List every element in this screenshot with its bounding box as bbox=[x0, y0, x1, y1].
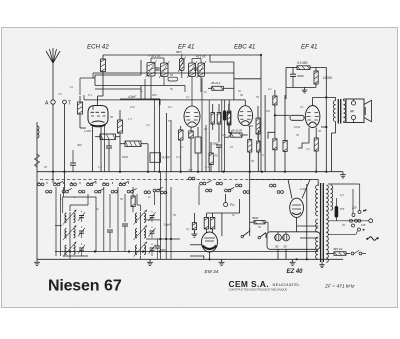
resistor EM34 target bbox=[192, 223, 196, 230]
svg-text:6BJJ: 6BJJ bbox=[176, 50, 182, 54]
wire osc feedback 3 bbox=[95, 88, 141, 90]
speaker terminal bottom bbox=[351, 115, 355, 119]
svg-text:6,3: 6,3 bbox=[340, 193, 344, 197]
svg-text:50: 50 bbox=[110, 115, 114, 119]
wire output anode bbox=[312, 97, 314, 105]
box 50pF bbox=[168, 77, 178, 81]
svg-text:3,4pF: 3,4pF bbox=[164, 223, 171, 227]
wire left col 2 bbox=[166, 113, 168, 172]
svg-text:0,3: 0,3 bbox=[146, 123, 150, 127]
svg-text:50: 50 bbox=[275, 245, 279, 249]
wire mains long bbox=[328, 220, 369, 222]
svg-text:T.P: T.P bbox=[188, 168, 192, 172]
resistor output cathode bbox=[314, 138, 318, 151]
cap osc row3 bbox=[155, 245, 160, 247]
wire EBC41 rail bbox=[260, 79, 262, 172]
IF1 coil secondary bbox=[161, 63, 169, 77]
svg-text:200: 200 bbox=[151, 93, 157, 97]
box EF41 decoupling bbox=[195, 137, 201, 153]
ground bottom 1 bbox=[149, 259, 151, 262]
svg-text:0,2: 0,2 bbox=[268, 87, 272, 91]
wire grid horiz bbox=[80, 77, 95, 79]
cap sw 1 bbox=[107, 229, 113, 231]
svg-text:Niesen: Niesen bbox=[48, 278, 99, 295]
output transformer core bbox=[337, 99, 339, 124]
paper texture bbox=[0, 0, 1, 1]
svg-text:5000: 5000 bbox=[212, 142, 218, 146]
svg-text:220: 220 bbox=[351, 206, 357, 210]
wire HT top bbox=[317, 180, 319, 187]
svg-text:0,1: 0,1 bbox=[186, 95, 190, 99]
svg-text:EM 34: EM 34 bbox=[205, 269, 219, 275]
svg-text:10000: 10000 bbox=[323, 76, 332, 80]
wire mid vertical b bbox=[170, 120, 172, 172]
svg-text:25: 25 bbox=[229, 145, 233, 149]
ground bus right bbox=[342, 172, 344, 175]
wire ECH42 cathode drops bbox=[92, 126, 94, 172]
wire nfb bottom bbox=[286, 86, 316, 88]
coil ant SW bbox=[65, 245, 67, 248]
svg-text:PU: PU bbox=[230, 203, 235, 207]
power transformer core bbox=[320, 183, 322, 262]
volume pot bbox=[256, 118, 260, 134]
wire mid vertical c bbox=[201, 78, 203, 172]
fuse 465 bbox=[334, 252, 346, 256]
bus heater bbox=[55, 251, 318, 253]
tube EM34 bbox=[202, 232, 218, 252]
wire selector drop b bbox=[359, 184, 361, 211]
coil ant LW bbox=[65, 229, 67, 232]
svg-text:1nF: 1nF bbox=[130, 105, 135, 109]
ground nfb bbox=[304, 87, 306, 90]
svg-text:EF 41: EF 41 bbox=[301, 44, 317, 51]
wire EM34 down bbox=[209, 252, 211, 259]
output transformer secondary bbox=[344, 101, 346, 105]
wire mid vertical d bbox=[205, 125, 207, 172]
switch arm 2 bbox=[260, 233, 266, 238]
coil ant MW bbox=[65, 213, 67, 216]
svg-text:50: 50 bbox=[318, 129, 322, 133]
svg-text:0,1: 0,1 bbox=[88, 93, 92, 97]
wire EZ40 right rail bbox=[306, 184, 308, 232]
wire mains low bbox=[328, 233, 356, 235]
svg-text:45+0,05: 45+0,05 bbox=[231, 129, 242, 133]
trimmer osc 2 bbox=[150, 230, 155, 232]
junction dots right bbox=[325, 96, 327, 98]
mains switch 2 bbox=[351, 252, 354, 255]
wire sw to coils bbox=[63, 187, 65, 197]
antenna bbox=[46, 51, 53, 63]
wire filter box down bbox=[277, 249, 279, 259]
wire osc rail 3 bbox=[170, 187, 172, 259]
wire EZ40 cathode bbox=[296, 217, 298, 231]
box 50000 bbox=[125, 141, 141, 147]
ground left rail bbox=[36, 259, 38, 262]
wire EM34 left bbox=[190, 244, 202, 246]
svg-text:0,5 MΩ: 0,5 MΩ bbox=[297, 61, 308, 65]
svg-text:0,1: 0,1 bbox=[300, 105, 304, 109]
resistor EF41 cathode bbox=[189, 131, 194, 138]
svg-text:T: T bbox=[68, 101, 71, 107]
wire loop box bbox=[63, 197, 96, 252]
svg-text:2M: 2M bbox=[265, 109, 271, 113]
speaker box bbox=[346, 99, 364, 123]
resistor EBC41 cathode bbox=[248, 140, 252, 153]
wire nfb left bbox=[285, 67, 287, 99]
shield col D bbox=[223, 111, 226, 121]
box 4.7nF bbox=[150, 153, 161, 163]
cap sw 2 bbox=[122, 223, 128, 225]
wire B+ drop bbox=[260, 55, 262, 79]
svg-text:12000: 12000 bbox=[84, 129, 92, 133]
resistor 6BJJ dark bbox=[180, 59, 185, 71]
svg-text:NEUCHATEL: NEUCHATEL bbox=[273, 282, 301, 287]
svg-text:50: 50 bbox=[240, 93, 244, 97]
resistor EBC41 grid bbox=[227, 111, 231, 125]
wire coil links right bbox=[140, 224, 142, 228]
svg-text:AP: AP bbox=[350, 110, 354, 114]
IF2 coil secondary bbox=[198, 63, 205, 77]
wire AVC horiz bbox=[234, 78, 261, 80]
wire osc rail 1 bbox=[159, 172, 161, 260]
wire coil links left bbox=[69, 224, 71, 228]
switch contacts bbox=[38, 183, 41, 186]
svg-text:Y 471 kc: Y 471 kc bbox=[148, 54, 161, 58]
wire heater taps bbox=[297, 225, 319, 227]
svg-text:20: 20 bbox=[237, 89, 241, 93]
svg-text:ZF = 471 kHz: ZF = 471 kHz bbox=[324, 284, 355, 290]
wire col 0 bbox=[208, 100, 210, 172]
wire B+ top bbox=[103, 54, 261, 56]
wire osc fb ext bbox=[146, 85, 185, 87]
switch arm 1 bbox=[243, 232, 249, 237]
tube EBC41 bbox=[238, 106, 253, 126]
resistor 0.5M bbox=[297, 66, 310, 70]
selector arm end bbox=[369, 219, 373, 223]
wire sw drop mid4 bbox=[124, 194, 126, 222]
wire EBC41 top bbox=[244, 100, 246, 106]
svg-text:4,5nF: 4,5nF bbox=[128, 95, 137, 99]
IF1 coil primary bbox=[147, 63, 155, 77]
resistor col A2 bbox=[209, 153, 213, 165]
speaker cone bbox=[364, 100, 372, 121]
power transformer aux winding bbox=[331, 185, 333, 189]
IF1 cap bbox=[155, 67, 159, 69]
svg-text:46+0,2: 46+0,2 bbox=[211, 81, 221, 85]
wire osc grid bbox=[120, 98, 160, 100]
resistor smoothing bbox=[254, 221, 265, 224]
resistor osc grid bbox=[131, 196, 135, 207]
svg-text:2x300: 2x300 bbox=[299, 187, 308, 191]
wire caps top bbox=[277, 232, 279, 234]
resistor det top bbox=[273, 96, 277, 105]
svg-text:1,5: 1,5 bbox=[128, 117, 132, 121]
wire T down bbox=[64, 104, 66, 190]
svg-text:10nF: 10nF bbox=[294, 125, 301, 129]
resistor EF41 screen bbox=[179, 130, 184, 140]
power transformer winding 2 bbox=[316, 219, 318, 223]
wire left rail bbox=[36, 122, 38, 259]
cap left mid bbox=[70, 162, 76, 164]
wire antenna down bbox=[52, 104, 54, 183]
wire HT horiz bbox=[250, 179, 314, 181]
wire IF2 sec down bbox=[200, 83, 202, 92]
svg-text:471 kc: 471 kc bbox=[196, 55, 206, 59]
wire rail left a bbox=[55, 187, 57, 256]
resistor R-anode ECH42 bbox=[101, 59, 106, 72]
wire can3 drop bbox=[233, 62, 235, 100]
wire EF41 cathode bbox=[190, 127, 192, 131]
tube EZ40 bbox=[290, 198, 304, 217]
svg-text:50: 50 bbox=[284, 245, 288, 249]
terminal A bbox=[51, 100, 55, 104]
ground bottom 3 bbox=[292, 259, 294, 262]
wire mid vertical a bbox=[154, 99, 156, 172]
svg-text:125: 125 bbox=[361, 223, 366, 227]
svg-text:50: 50 bbox=[251, 159, 255, 163]
junction dots bottom bbox=[69, 250, 71, 252]
wire col C bbox=[221, 100, 223, 172]
resistor nfb bbox=[314, 71, 318, 84]
svg-text:0,1: 0,1 bbox=[168, 105, 172, 109]
svg-text:EBC 41: EBC 41 bbox=[234, 44, 255, 51]
mains squiggle bbox=[369, 237, 377, 241]
IF1 top wire bbox=[151, 57, 164, 59]
switch stubs bbox=[38, 182, 40, 184]
phono jack bbox=[224, 203, 228, 207]
svg-text:300: 300 bbox=[77, 143, 82, 147]
resistor EM34 b bbox=[210, 217, 215, 229]
resistor det bottom bbox=[273, 139, 277, 150]
switch arms bbox=[58, 181, 63, 184]
avc arrow bbox=[229, 132, 240, 134]
resistor osc bbox=[118, 120, 123, 133]
box padder bbox=[100, 134, 116, 140]
wire det col bbox=[264, 95, 266, 172]
wire prim bottom down bbox=[335, 122, 337, 134]
wire IF2 anode bbox=[191, 83, 193, 106]
svg-text:0,5: 0,5 bbox=[262, 153, 266, 157]
svg-text:0,1: 0,1 bbox=[176, 155, 180, 159]
svg-text:2n: 2n bbox=[147, 195, 151, 199]
coil osc LW bbox=[135, 229, 137, 232]
wire det rail bbox=[249, 152, 251, 232]
ground transformer bbox=[321, 262, 323, 265]
resistor EBC41 anode bbox=[257, 141, 260, 152]
wire B+ rail right bbox=[325, 67, 327, 171]
wire pu drop bbox=[198, 185, 200, 205]
svg-text:67: 67 bbox=[104, 278, 122, 295]
svg-text:0,3: 0,3 bbox=[205, 165, 209, 169]
bus main bbox=[37, 171, 343, 173]
IF2 cap bbox=[194, 67, 198, 69]
svg-text:0,1: 0,1 bbox=[180, 145, 184, 149]
speaker terminal top bbox=[351, 101, 355, 105]
wire osc rail 2 bbox=[165, 172, 167, 259]
coil osc MW bbox=[135, 213, 137, 216]
resistor col E bbox=[227, 113, 230, 125]
tube ECH42 bbox=[88, 106, 108, 126]
power transformer secondary windings bbox=[326, 185, 328, 189]
wire avc long bbox=[84, 99, 234, 101]
wire osc horiz bbox=[146, 238, 180, 240]
svg-text:1,5: 1,5 bbox=[98, 165, 102, 169]
svg-text:5000: 5000 bbox=[122, 155, 129, 159]
junction bus dots bbox=[52, 171, 54, 173]
wire sw drop mid1 bbox=[103, 187, 105, 252]
capacitor 5000 bbox=[290, 73, 296, 75]
svg-text:25: 25 bbox=[43, 165, 48, 169]
wire EZ40 anodes bbox=[288, 180, 292, 199]
svg-text:EZ 40: EZ 40 bbox=[287, 269, 304, 275]
wire selector drop a bbox=[352, 189, 354, 214]
wire EM34 feed bbox=[207, 212, 240, 214]
resistor EBC41 diode load bbox=[231, 133, 242, 137]
voltage selector contacts bbox=[352, 214, 355, 217]
coupling box bbox=[290, 115, 304, 120]
wire ECH42 anode up bbox=[97, 96, 99, 106]
wire left col 1 bbox=[158, 99, 160, 172]
selector dots bbox=[363, 210, 365, 212]
tube EF41 bbox=[184, 106, 200, 127]
svg-text:5000: 5000 bbox=[297, 74, 304, 78]
svg-text:5000: 5000 bbox=[252, 216, 259, 220]
cap electrolytic 2 bbox=[283, 234, 290, 241]
resistor col A bbox=[211, 113, 215, 125]
dashed switch line bbox=[40, 179, 312, 181]
terminal T bbox=[63, 100, 67, 104]
svg-text:0,5: 0,5 bbox=[222, 133, 226, 137]
output transformer primary bbox=[333, 101, 335, 105]
left rail coil bbox=[37, 126, 39, 130]
wire EBC41 load bbox=[242, 134, 248, 136]
svg-text:CONSTRUCTION ELECTRIQUE ET MEC: CONSTRUCTION ELECTRIQUE ET MECANIQUE bbox=[229, 287, 288, 291]
resistor det bottom2 bbox=[283, 140, 287, 151]
power transformer winding 3 bbox=[316, 237, 318, 241]
trimmer osc 3 bbox=[150, 247, 155, 249]
wire L corner bbox=[268, 132, 275, 139]
IF2 top wire bbox=[192, 58, 201, 60]
resistor R-grid ECH42 bbox=[78, 102, 83, 114]
trimmer osc 1 bbox=[150, 215, 155, 217]
wire screen horiz bbox=[93, 72, 234, 74]
svg-text:ECH 42: ECH 42 bbox=[87, 44, 109, 51]
wire rail left b bbox=[59, 194, 61, 256]
wire output grid down bbox=[308, 128, 310, 144]
svg-text:0,5: 0,5 bbox=[58, 92, 62, 96]
bus ground bottom bbox=[37, 258, 343, 260]
cap osc bbox=[106, 145, 112, 147]
resistor col B bbox=[217, 113, 221, 125]
coil osc SW bbox=[135, 245, 137, 248]
ground bottom 2 bbox=[221, 259, 223, 262]
IF2 coil primary bbox=[189, 63, 196, 77]
trimmer ant 1 bbox=[79, 215, 84, 217]
wire nfb right bbox=[310, 66, 326, 68]
tube EF41 output bbox=[305, 106, 320, 128]
resistor EM34 a bbox=[204, 217, 208, 229]
trimmer ant 3 bbox=[79, 247, 84, 249]
left rail zigzag bbox=[35, 154, 40, 167]
svg-text:0,1: 0,1 bbox=[186, 227, 190, 231]
svg-text:EF 41: EF 41 bbox=[178, 44, 194, 51]
wire det junction bbox=[274, 114, 276, 116]
wire EM34 feed up bbox=[239, 199, 241, 213]
cap col B bbox=[216, 144, 222, 146]
svg-text:4,7nF: 4,7nF bbox=[162, 156, 171, 160]
filter box bbox=[267, 232, 320, 250]
trimmer ant 2 bbox=[79, 230, 84, 232]
svg-text:5Y3: 5Y3 bbox=[340, 208, 345, 211]
wire osc feedback 1 bbox=[95, 74, 141, 76]
power transformer primary windings bbox=[316, 185, 318, 189]
svg-text:0,4: 0,4 bbox=[306, 147, 310, 151]
IF can 3 bbox=[212, 86, 224, 90]
svg-text:465 Hz: 465 Hz bbox=[333, 247, 343, 251]
svg-text:25: 25 bbox=[203, 127, 208, 131]
wire sec to speaker bbox=[343, 99, 345, 101]
resistor bleeder dark bbox=[335, 206, 339, 218]
wire sw drop mid2 bbox=[109, 194, 111, 228]
cap electrolytic 1 bbox=[275, 234, 282, 241]
wire IF1 down bbox=[150, 83, 152, 99]
wire osc feedback 2 bbox=[95, 85, 146, 87]
wire sw drop mid3 bbox=[117, 187, 119, 252]
